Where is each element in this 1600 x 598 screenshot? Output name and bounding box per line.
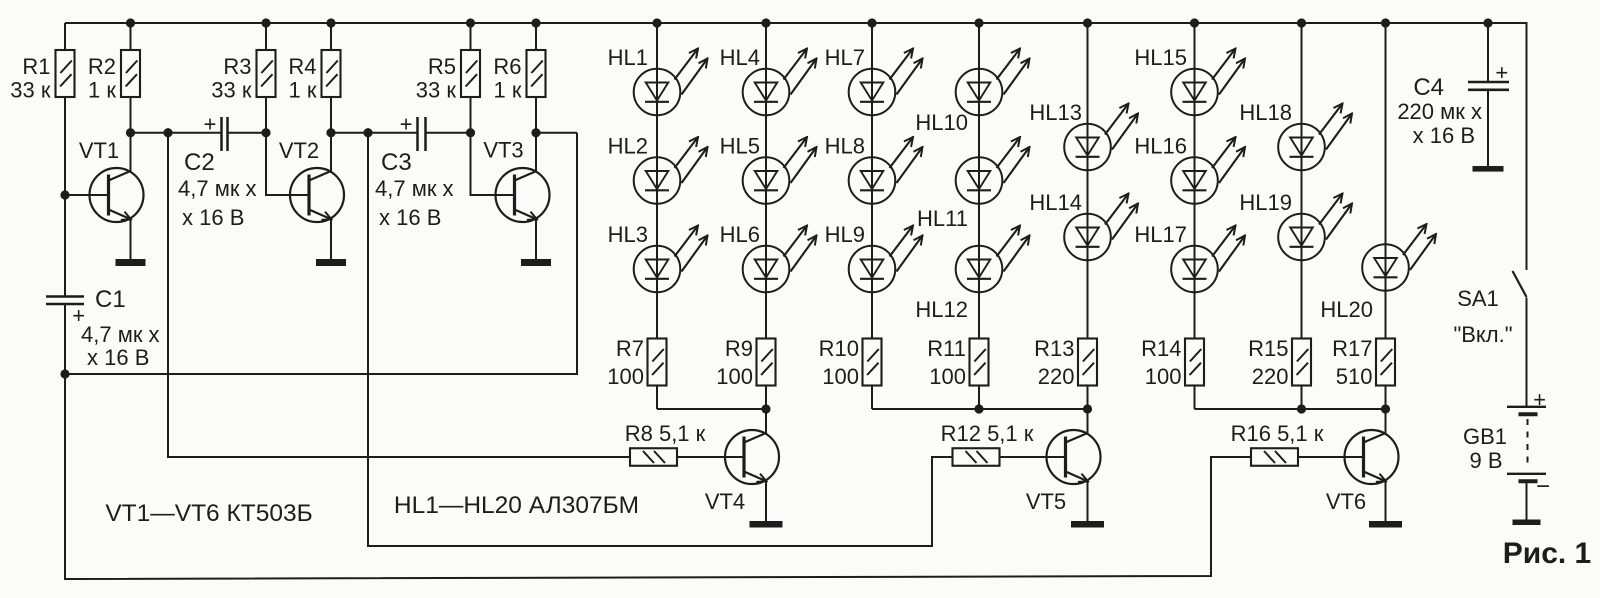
svg-text:HL4: HL4	[720, 45, 760, 70]
svg-text:R17: R17	[1332, 336, 1372, 361]
svg-text:C2: C2	[184, 149, 215, 176]
svg-text:х 16 В: х 16 В	[87, 345, 149, 370]
svg-text:R10: R10	[819, 336, 859, 361]
svg-text:HL15: HL15	[1134, 45, 1187, 70]
svg-text:HL19: HL19	[1239, 190, 1292, 215]
svg-text:9 В: 9 В	[1469, 448, 1502, 473]
svg-text:220: 220	[1252, 364, 1289, 389]
svg-text:HL3: HL3	[608, 222, 648, 247]
svg-text:100: 100	[1145, 364, 1182, 389]
svg-text:R3: R3	[223, 54, 251, 79]
svg-text:VT6: VT6	[1326, 489, 1366, 514]
svg-text:HL1: HL1	[608, 45, 648, 70]
svg-text:HL10: HL10	[915, 110, 968, 135]
svg-text:R8 5,1 к: R8 5,1 к	[625, 421, 706, 446]
svg-text:HL20: HL20	[1320, 297, 1373, 322]
svg-text:HL2: HL2	[608, 134, 648, 159]
svg-text:VT1: VT1	[79, 138, 119, 163]
svg-text:R7: R7	[616, 336, 644, 361]
svg-text:HL11: HL11	[917, 206, 968, 231]
svg-text:C1: C1	[95, 286, 126, 313]
svg-text:HL7: HL7	[825, 45, 865, 70]
svg-text:4,7 мк х: 4,7 мк х	[375, 176, 454, 201]
svg-text:−: −	[1536, 473, 1550, 500]
svg-text:HL6: HL6	[720, 222, 760, 247]
svg-text:VT2: VT2	[279, 138, 319, 163]
svg-text:1 к: 1 к	[494, 78, 522, 103]
svg-text:HL8: HL8	[825, 134, 865, 159]
svg-text:510: 510	[1336, 364, 1373, 389]
svg-text:R11: R11	[927, 336, 966, 361]
svg-text:100: 100	[929, 364, 966, 389]
svg-text:100: 100	[716, 364, 753, 389]
svg-text:HL12: HL12	[915, 297, 968, 322]
svg-text:1 к: 1 к	[88, 78, 116, 103]
svg-text:R12 5,1 к: R12 5,1 к	[941, 421, 1034, 446]
svg-text:33 к: 33 к	[10, 78, 51, 103]
svg-text:SA1: SA1	[1457, 286, 1499, 311]
svg-text:R4: R4	[288, 54, 316, 79]
svg-text:х 16 В: х 16 В	[182, 205, 244, 230]
svg-text:R9: R9	[725, 336, 753, 361]
svg-text:HL17: HL17	[1134, 222, 1187, 247]
svg-text:R5: R5	[428, 54, 456, 79]
svg-text:33 к: 33 к	[211, 78, 252, 103]
svg-text:1 к: 1 к	[289, 78, 317, 103]
svg-text:100: 100	[822, 364, 859, 389]
svg-text:"Вкл.": "Вкл."	[1453, 322, 1512, 347]
svg-text:HL1—HL20 АЛ307БМ: HL1—HL20 АЛ307БМ	[394, 492, 639, 519]
svg-text:4,7 мк х: 4,7 мк х	[81, 322, 160, 347]
svg-text:HL18: HL18	[1239, 100, 1292, 125]
svg-text:VT4: VT4	[705, 489, 745, 514]
svg-text:+: +	[1495, 60, 1508, 85]
svg-text:R15: R15	[1248, 336, 1288, 361]
svg-text:220 мк х: 220 мк х	[1397, 99, 1482, 124]
svg-text:х 16 В: х 16 В	[1413, 123, 1475, 148]
svg-text:HL14: HL14	[1029, 190, 1082, 215]
svg-text:R14: R14	[1141, 336, 1181, 361]
svg-text:HL5: HL5	[720, 134, 760, 159]
svg-text:+: +	[400, 112, 413, 137]
svg-text:R13: R13	[1034, 336, 1074, 361]
svg-text:R2: R2	[88, 54, 116, 79]
svg-text:220: 220	[1038, 364, 1075, 389]
svg-text:100: 100	[607, 364, 644, 389]
svg-text:VT5: VT5	[1026, 489, 1066, 514]
svg-text:HL13: HL13	[1029, 100, 1082, 125]
svg-text:VT1—VT6 КТ503Б: VT1—VT6 КТ503Б	[105, 500, 312, 527]
svg-text:х 16 В: х 16 В	[379, 205, 441, 230]
svg-text:4,7 мк х: 4,7 мк х	[178, 176, 257, 201]
svg-text:Рис. 1: Рис. 1	[1503, 537, 1592, 570]
svg-text:R6: R6	[493, 54, 521, 79]
svg-text:+: +	[1533, 387, 1546, 412]
svg-text:33 к: 33 к	[416, 78, 457, 103]
svg-text:VT3: VT3	[483, 138, 523, 163]
svg-text:HL9: HL9	[825, 222, 865, 247]
svg-text:GB1: GB1	[1463, 424, 1507, 449]
svg-text:C3: C3	[381, 149, 412, 176]
svg-text:R1: R1	[22, 54, 50, 79]
svg-text:C4: C4	[1413, 74, 1444, 101]
svg-text:R16 5,1 к: R16 5,1 к	[1231, 421, 1324, 446]
svg-text:+: +	[204, 112, 217, 137]
svg-text:HL16: HL16	[1134, 134, 1187, 159]
